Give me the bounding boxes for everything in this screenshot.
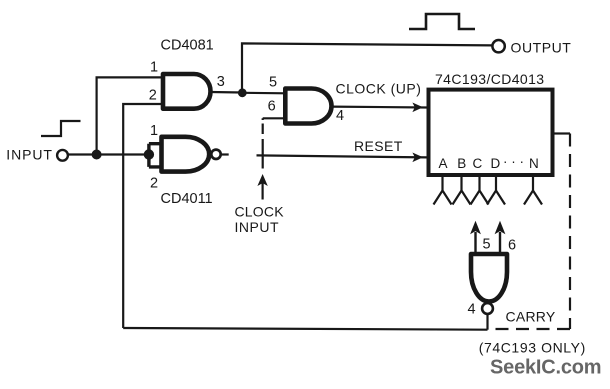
junction node at U1 output bbox=[238, 88, 247, 97]
svg-text:6: 6 bbox=[508, 238, 516, 254]
wire U3 output to box with arrow bbox=[332, 105, 427, 108]
U2 output stub bbox=[222, 153, 229, 155]
svg-text:2: 2 bbox=[150, 176, 158, 192]
svg-text:SeekIC.com: SeekIC.com bbox=[490, 357, 601, 379]
output pulse waveform bbox=[409, 14, 475, 29]
NAND input junction dot bbox=[144, 149, 154, 159]
wire feedback bottom bbox=[123, 328, 487, 330]
svg-text:4: 4 bbox=[336, 108, 344, 124]
and-gate U1 CD4081 bbox=[163, 74, 211, 109]
svg-text:1: 1 bbox=[150, 123, 158, 139]
NAND input tie bracket bbox=[149, 144, 161, 167]
counter box U4 bbox=[429, 90, 553, 175]
svg-text:B: B bbox=[457, 156, 466, 171]
svg-text:CLOCK: CLOCK bbox=[235, 204, 285, 220]
svg-text:5: 5 bbox=[269, 74, 277, 90]
svg-text:CD4081: CD4081 bbox=[161, 38, 214, 54]
input step waveform bbox=[41, 121, 81, 136]
svg-text:CARRY: CARRY bbox=[506, 308, 556, 324]
svg-text:INPUT: INPUT bbox=[6, 146, 53, 162]
U3 pin6 stub bbox=[263, 117, 286, 119]
nand-gate U2 CD4011 bbox=[162, 137, 210, 172]
U5 output wire down bbox=[486, 314, 488, 329]
output terminal circle bbox=[492, 40, 504, 52]
reset wire with arrow bbox=[257, 155, 427, 157]
wire junction to output terminal bbox=[242, 43, 492, 92]
junction input split bbox=[92, 150, 102, 160]
wire up to AND pin1 bbox=[97, 77, 163, 154]
svg-text:CD4011: CD4011 bbox=[161, 191, 213, 207]
carry nand gate U5 bbox=[471, 254, 507, 302]
U5 bubble bbox=[482, 303, 493, 314]
U2 output bubble bbox=[211, 150, 220, 159]
clock input dashed line bbox=[262, 118, 264, 168]
svg-text:5: 5 bbox=[483, 237, 491, 253]
box output pins A B C D N bbox=[434, 177, 543, 205]
svg-text:74C193/CD4013: 74C193/CD4013 bbox=[435, 71, 545, 87]
svg-text:N: N bbox=[529, 156, 539, 171]
svg-text:· · ·: · · · bbox=[503, 154, 524, 169]
svg-text:1: 1 bbox=[150, 60, 158, 76]
svg-text:6: 6 bbox=[268, 99, 276, 115]
svg-text:2: 2 bbox=[149, 87, 157, 103]
dashed feedback from box right bbox=[555, 132, 571, 134]
svg-text:INPUT: INPUT bbox=[235, 219, 280, 235]
U5 input arrows bbox=[474, 232, 476, 254]
svg-text:C: C bbox=[473, 156, 483, 171]
wire junction to U3 pin5 bbox=[242, 92, 286, 95]
svg-text:(74C193 ONLY): (74C193 ONLY) bbox=[479, 340, 586, 356]
svg-text:A: A bbox=[439, 156, 448, 171]
svg-text:CLOCK (UP): CLOCK (UP) bbox=[336, 81, 422, 97]
svg-text:3: 3 bbox=[217, 74, 225, 90]
svg-text:OUTPUT: OUTPUT bbox=[511, 39, 572, 55]
wire U1 output to junction bbox=[211, 91, 243, 94]
and-gate U3 bbox=[285, 89, 331, 124]
svg-text:D: D bbox=[491, 156, 501, 171]
wire feedback vertical to AND pin2 bbox=[123, 104, 163, 328]
input terminal circle bbox=[57, 150, 68, 161]
wire input to NAND bbox=[68, 153, 150, 155]
clock input arrow bbox=[257, 174, 267, 186]
svg-text:4: 4 bbox=[468, 302, 476, 318]
svg-text:RESET: RESET bbox=[354, 138, 403, 154]
